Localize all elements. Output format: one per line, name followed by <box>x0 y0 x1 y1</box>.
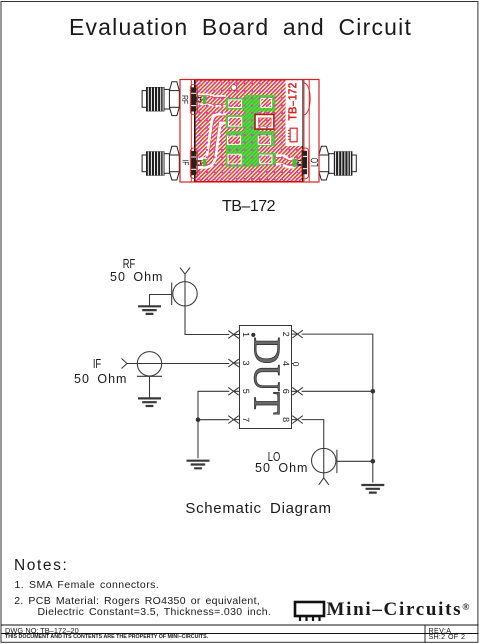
svg-text:0: 0 <box>291 362 301 367</box>
svg-text:7: 7 <box>241 417 251 422</box>
svg-text:DUT: DUT <box>246 337 288 415</box>
svg-text:IF: IF <box>180 160 190 166</box>
svg-text:8: 8 <box>281 417 291 422</box>
svg-text:RF: RF <box>180 95 190 104</box>
svg-text:TB–172: TB–172 <box>286 82 300 120</box>
svg-text:LO: LO <box>309 158 321 167</box>
